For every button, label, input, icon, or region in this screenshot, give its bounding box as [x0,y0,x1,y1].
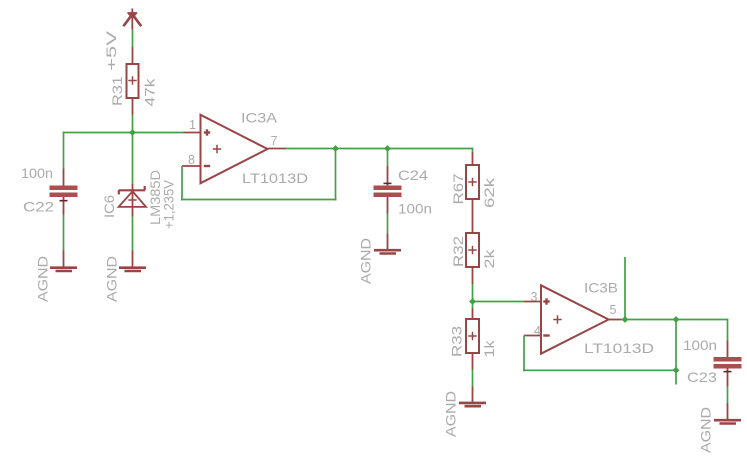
svg-text:7: 7 [271,134,278,148]
node junction C [384,145,391,152]
wire feedback IC3A bottom [181,199,337,201]
wire junction to IC6 [132,133,134,185]
svg-text:IC3B: IC3B [584,280,618,296]
wire feedback IC3A right [335,149,337,201]
wire junction row to pin 1 [63,132,184,134]
capacitor C24 [374,166,402,214]
capacitor C23 [714,341,742,387]
wire junction to pin 3 [473,301,525,303]
node junction D [469,298,476,305]
svg-text:IC6: IC6 [101,195,117,218]
wire output IC3B [621,319,728,321]
svg-text:LT1013D: LT1013D [242,170,308,186]
wire C22 to AGND [63,215,65,251]
wire to C23 [727,319,729,341]
svg-text:47k: 47k [142,77,158,106]
wire R31 to junction [132,115,134,134]
wire to C24 [387,149,389,167]
svg-text:1: 1 [189,118,196,132]
wire IC6 to AGND [132,217,134,251]
svg-text:IC3A: IC3A [241,110,278,126]
node junction B [332,145,339,152]
diode IC6 LM385D [119,184,147,217]
svg-text:62k: 62k [481,177,497,208]
svg-text:100n: 100n [398,201,432,217]
ground AGND (IC6) [119,251,146,272]
wire C24 to AGND [387,214,389,234]
ground AGND (C24) [374,234,401,254]
ground AGND (C23) [714,403,741,424]
node junction E [622,316,629,323]
resistor R67 [466,152,479,233]
wire feedback IC3A left [181,166,183,201]
svg-text:4: 4 [534,324,541,338]
resistor R31 [127,47,139,115]
wire vertical stub up [624,257,626,320]
wire R33 to AGND [472,370,474,387]
svg-text:R33: R33 [449,326,465,357]
svg-text:AGND: AGND [35,256,51,302]
svg-text:8: 8 [188,153,195,167]
ground AGND (C22) [50,251,77,272]
svg-text:LT1013D: LT1013D [584,340,654,356]
ground AGND (R33) [459,387,486,407]
svg-text:100n: 100n [21,165,53,181]
op-amp IC3B [524,285,621,353]
wire junction to R33 [472,302,474,309]
wire R32 to junction [472,284,474,303]
resistor R33 [466,309,479,370]
wire C23 to AGND [727,387,729,404]
supply +5V symbol [123,9,141,30]
node junction F [673,316,680,323]
svg-text:R31: R31 [109,76,125,106]
svg-text:AGND: AGND [358,238,374,284]
svg-text:C22: C22 [23,199,54,215]
resistor R32 [466,233,479,284]
wire +5V to R31 [132,30,134,48]
wire feedback IC3B bottom [523,369,677,371]
svg-text:100n: 100n [683,337,717,353]
svg-text:5: 5 [610,303,617,317]
capacitor C22 [50,169,78,215]
svg-text:+5V: +5V [103,30,119,71]
svg-text:AGND: AGND [698,407,714,453]
op-amp IC3A [182,115,286,183]
svg-text:C24: C24 [398,167,428,183]
svg-text:AGND: AGND [443,391,459,437]
svg-text:C23: C23 [687,369,717,385]
svg-text:AGND: AGND [104,256,120,302]
wire down to R67 [472,148,474,153]
wire output IC3A [286,148,473,150]
node junction G [673,367,680,374]
svg-text:3: 3 [531,290,538,304]
svg-text:+1,235V: +1,235V [161,179,177,229]
svg-text:R67: R67 [450,173,466,204]
node junction A [129,129,136,136]
wire feedback IC3B left [523,336,525,372]
wire to C22 [63,132,65,169]
svg-text:2k: 2k [481,248,497,268]
svg-text:R32: R32 [450,236,466,267]
svg-text:1k: 1k [481,339,497,357]
wire feedback IC3B right [675,320,677,385]
